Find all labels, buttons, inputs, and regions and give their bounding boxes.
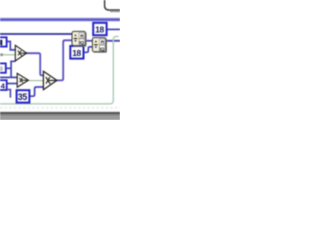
wire (T1 output down to T3 top input) [26,53,43,75]
multiplier T3 (large) [43,71,57,89]
U1 quotient-remainder block [72,31,87,46]
wire (node B output stub) [6,67,11,69]
wire (U1 IQ output to U2 top input) [86,40,93,42]
structure border (green rounded frame) [0,36,119,104]
node C (clipped constant 14, left edge) [0,80,7,90]
multiplier T2 [17,73,28,87]
svg-text:IQ: IQ [100,46,105,51]
wire (long horizontal into U1 top input) [0,33,73,35]
wire (constant 18b output to right edge) [107,28,120,30]
svg-text:IQ: IQ [79,40,84,45]
background [0,0,120,120]
node B (clipped constant, left edge) [0,63,6,72]
grid dashes row [0,107,120,109]
constant 18a (near U2) [70,46,83,59]
svg-text:18: 18 [95,25,104,35]
node (gray wire end blob) [0,53,3,56]
svg-text:35: 35 [18,92,28,102]
constant 18b (top right) [93,23,106,35]
wire (U2 R output to right edge) [106,40,120,42]
svg-text:R: R [101,40,105,46]
wire (thick array wire across top) [0,18,120,22]
node A (clipped constant, left edge) [0,37,7,46]
wire (branch vertical up to T1 bottom input) [10,61,15,77]
wire (node A output elbow into T1 top input) [7,42,16,50]
bottom window band [0,111,120,120]
wire (pale middle line into T1) [0,54,16,56]
U2 quotient-remainder block [92,38,107,53]
constant 35 [17,90,30,102]
wire (constant 35 to T3 bottom input) [29,87,43,96]
wire (pale line T2 output to T3 middle) [28,80,43,82]
multiplier T1 [15,45,26,61]
wire (long horizontal into T2 top input) [0,76,17,78]
wire (node C lower stub elbow) [8,90,11,98]
wire (constant 18a to U2 bottom input) [83,47,92,52]
wire (T3 output up to U1 bottom input) [57,40,73,80]
wire (node C output into T2 bottom input) [7,83,17,85]
svg-text:18: 18 [72,48,81,58]
svg-text:9: 9 [0,66,3,73]
window corner (top-right panel bottom-left corner) [105,0,120,12]
svg-text:R: R [80,33,84,39]
